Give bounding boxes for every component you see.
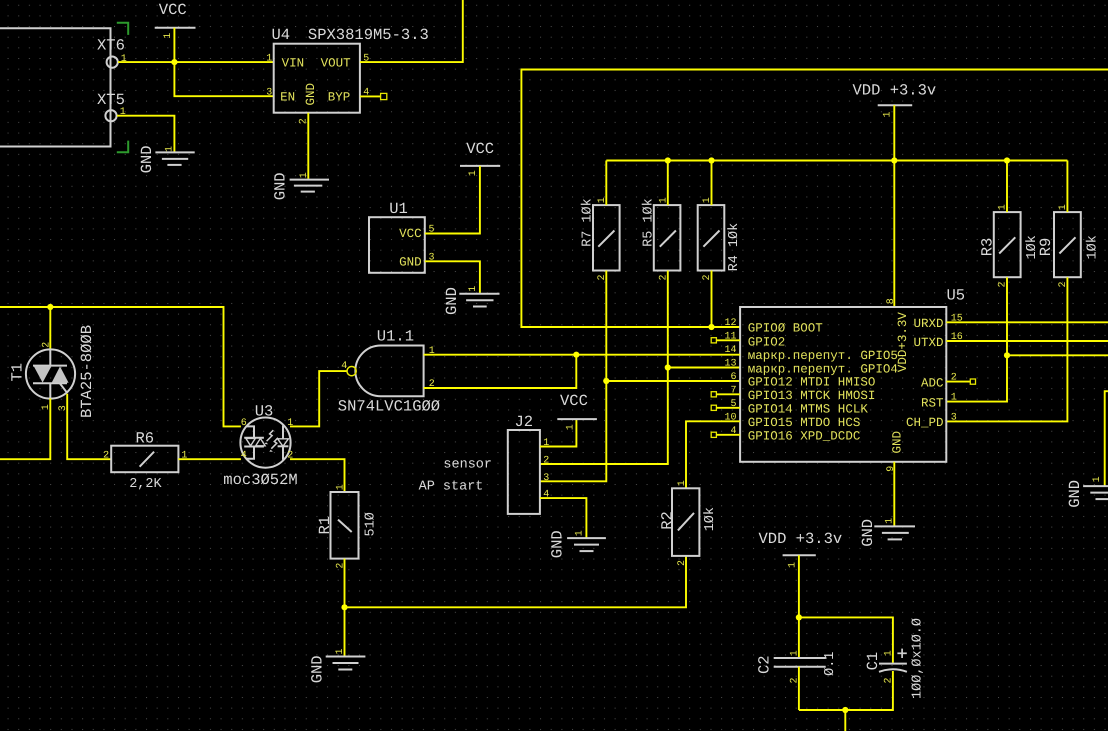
svg-text:U3: U3 <box>255 402 274 420</box>
op IC U1 <box>369 200 435 273</box>
open pin square BYP <box>381 93 387 99</box>
junction bottom <box>842 707 848 713</box>
supply VDD +3.3v (top) <box>853 81 937 117</box>
svg-text:GPIOØ BOOT: GPIOØ BOOT <box>748 322 824 336</box>
svg-text:GND: GND <box>138 145 156 173</box>
svg-text:VCC: VCC <box>560 392 588 410</box>
ground GND (U4) <box>271 172 329 200</box>
svg-text:GPIO13 MTCK HMOSI: GPIO13 MTCK HMOSI <box>748 389 876 403</box>
junction VDD/pin8 <box>891 157 897 163</box>
wire R3 top <box>1006 161 1008 213</box>
svg-text:J2: J2 <box>515 413 534 431</box>
svg-text:1: 1 <box>1092 476 1103 482</box>
svg-text:GPIO2: GPIO2 <box>748 335 786 349</box>
wire U4 BYP stub <box>360 95 381 97</box>
svg-text:EN: EN <box>280 91 295 105</box>
svg-text:1: 1 <box>885 518 896 524</box>
wire U4 GND pin 2 down <box>307 113 309 179</box>
wire VDD symbol down to U5 pin 8 <box>893 105 895 307</box>
svg-text:R4 1Øk: R4 1Øk <box>727 223 742 272</box>
svg-text:C2: C2 <box>756 655 774 674</box>
svg-text:BYP: BYP <box>328 91 351 105</box>
junction R4/GPIO0 <box>708 324 714 330</box>
svg-text:VCC: VCC <box>159 1 187 19</box>
ground GND (U5 pin 9) <box>859 518 915 547</box>
wire bottom rail <box>799 671 893 710</box>
wire U1 GND down <box>425 261 480 293</box>
pin XT5 <box>97 91 126 121</box>
svg-text:VCC: VCC <box>466 140 494 158</box>
wire right edge to GND <box>1105 391 1108 486</box>
svg-text:U1: U1 <box>389 200 408 218</box>
svg-text:1: 1 <box>575 530 586 536</box>
wire bottom to edge <box>844 710 846 731</box>
wire GPIO4 to U5 pin 13 <box>668 367 740 369</box>
junction GPIO12 <box>603 378 609 384</box>
connector frame XT (cropped) <box>0 28 111 146</box>
svg-text:GND: GND <box>304 83 318 106</box>
svg-text:6: 6 <box>241 418 247 429</box>
wire VDD rail <box>606 160 1067 162</box>
svg-text:1: 1 <box>299 172 310 178</box>
resistor R6 <box>103 429 187 492</box>
resistor R7 <box>581 197 620 280</box>
wire U5 pin 9 GND <box>893 462 895 526</box>
svg-text:1: 1 <box>677 480 688 486</box>
svg-text:1: 1 <box>790 650 801 656</box>
svg-text:8: 8 <box>886 298 897 304</box>
svg-text:GND: GND <box>549 530 567 558</box>
wire R9 bottom to CH_PD <box>946 277 1067 421</box>
svg-text:2: 2 <box>103 450 109 461</box>
ground GND (J2) <box>549 530 606 558</box>
wire R6 to U3 pin 4 <box>178 458 241 460</box>
svg-text:VDD+3.3V: VDD+3.3V <box>896 312 910 373</box>
connector J2 <box>508 413 549 514</box>
open pin square GPIO14 pin 5 <box>711 405 716 410</box>
wire gate pin2 tie <box>424 355 577 388</box>
svg-text:VCC: VCC <box>399 227 422 241</box>
transistor T1 triac <box>9 325 97 418</box>
supply VCC (J2) <box>557 392 597 430</box>
svg-text:R6: R6 <box>136 429 155 447</box>
junction T1 top <box>47 304 53 310</box>
svg-text:SPX3819M5-3.3: SPX3819M5-3.3 <box>308 26 429 44</box>
capacitor C2 <box>756 650 839 683</box>
wire C2 bottom <box>798 667 800 710</box>
svg-text:GPIO16 XPD_DCDC: GPIO16 XPD_DCDC <box>748 430 861 444</box>
gate U1.1 SN74LVC1G00 <box>338 327 440 415</box>
ground GND (U1) <box>443 286 500 315</box>
wire J2 pin1 to VCC <box>540 419 577 446</box>
junction VCC/XT6 <box>171 59 177 65</box>
wire R3 bottom to RST <box>946 277 1007 401</box>
open pin square ADC <box>970 379 975 384</box>
wire URXD pin 15 <box>946 321 1108 323</box>
svg-text:1: 1 <box>335 648 346 654</box>
svg-text:1Øk: 1Øk <box>703 507 718 531</box>
svg-text:URXD: URXD <box>913 317 943 331</box>
wire pin 7 stub <box>716 393 740 395</box>
wire R7 top <box>605 161 607 206</box>
ground GND (right edge) <box>1066 476 1108 507</box>
svg-text:VOUT: VOUT <box>321 57 352 71</box>
svg-text:1: 1 <box>951 393 957 404</box>
op U3 optotriac moc3052M <box>223 402 297 489</box>
svg-text:1: 1 <box>884 650 895 656</box>
svg-text:VDD +3.3v: VDD +3.3v <box>853 81 937 99</box>
svg-text:GPIO12 MTDI HMISO: GPIO12 MTDI HMISO <box>748 376 876 390</box>
svg-text:1Øk: 1Øk <box>1086 235 1101 259</box>
svg-text:moc3Ø52M: moc3Ø52M <box>223 471 297 489</box>
svg-text:GPIO15 MTDO HCS: GPIO15 MTDO HCS <box>748 416 861 430</box>
wire to C1 top <box>799 617 893 662</box>
wire pin 5 stub <box>716 407 740 409</box>
svg-text:3: 3 <box>951 412 957 423</box>
svg-text:4: 4 <box>341 361 347 372</box>
wire T1 gate pin 3 to R6 <box>67 394 111 459</box>
svg-text:C1: C1 <box>864 652 882 671</box>
wire R9 top corner <box>1066 161 1068 213</box>
svg-text:R3: R3 <box>979 238 997 257</box>
svg-text:AP start: AP start <box>419 479 484 494</box>
svg-text:Ø.1: Ø.1 <box>823 652 838 676</box>
svg-text:2,2K: 2,2K <box>129 477 162 492</box>
svg-text:RST: RST <box>921 396 944 410</box>
svg-text:2: 2 <box>677 560 688 566</box>
wire gate out pin1 / pin14 net <box>424 354 740 356</box>
svg-text:GND: GND <box>399 256 422 270</box>
resistor R4 <box>698 197 742 280</box>
supply VCC (U1) <box>460 140 500 176</box>
svg-text:GND: GND <box>309 655 327 683</box>
svg-text:1: 1 <box>468 170 479 176</box>
wire XT5 to GND <box>117 116 174 152</box>
svg-text:4: 4 <box>241 451 247 462</box>
green corner bracket bottom <box>117 141 128 153</box>
svg-text:U1.1: U1.1 <box>377 327 414 345</box>
svg-text:1: 1 <box>883 111 894 117</box>
svg-text:13: 13 <box>724 359 736 370</box>
svg-text:VIN: VIN <box>282 57 305 71</box>
wire GPIO0 loop top right <box>521 70 1108 328</box>
junction R4/VDD <box>708 157 714 163</box>
wire XT6 to U4 VIN <box>118 61 274 63</box>
svg-text:2: 2 <box>42 342 53 348</box>
ground GND (R1) <box>309 648 366 683</box>
open pin square GPIO16 pin 4 <box>711 432 716 437</box>
svg-text:3: 3 <box>266 88 272 99</box>
junction R1/R2 net <box>341 604 347 610</box>
junction R3/RST net <box>1004 352 1010 358</box>
junction VDD/C1/C2 <box>796 614 802 620</box>
wire R4 bottom <box>711 271 713 328</box>
resistor R1 <box>316 484 379 568</box>
green corner bracket top <box>117 23 128 35</box>
wire R5 bottom to J2 pin2 <box>540 271 668 465</box>
wire R1 bottom to GND <box>344 559 346 657</box>
op IC U5 ESP module <box>724 286 965 472</box>
svg-text:12: 12 <box>724 318 736 329</box>
svg-text:GND: GND <box>859 519 877 547</box>
open pin square GPIO2 pin 11 <box>711 338 716 343</box>
svg-text:1: 1 <box>266 53 272 64</box>
svg-text:51Ø: 51Ø <box>364 512 379 536</box>
svg-text:BTA25-8ØØB: BTA25-8ØØB <box>78 325 96 418</box>
wire RST net right offscreen <box>1007 354 1108 356</box>
wire VCC junction down to EN <box>174 62 273 96</box>
supply VDD +3.3v (bottom) <box>759 530 843 568</box>
resistor R2 <box>659 480 719 566</box>
svg-text:U4: U4 <box>272 26 291 44</box>
pin XT6 <box>97 36 127 67</box>
svg-text:VDD +3.3v: VDD +3.3v <box>759 530 843 548</box>
svg-text:1: 1 <box>335 484 346 490</box>
svg-text:R2: R2 <box>659 511 677 530</box>
resistor R3 <box>979 204 1041 287</box>
op IC U4 SPX3819 regulator <box>266 26 429 124</box>
svg-text:маркр.перепут. GPIO4: маркр.перепут. GPIO4 <box>748 362 898 376</box>
junction R5/VDD <box>665 157 671 163</box>
svg-text:3: 3 <box>543 473 549 484</box>
svg-text:GND: GND <box>1066 480 1084 508</box>
svg-text:R9: R9 <box>1037 238 1055 257</box>
svg-text:1: 1 <box>164 146 175 152</box>
svg-text:1ØØ,Øx1Ø.Ø: 1ØØ,Øx1Ø.Ø <box>911 618 926 699</box>
supply VCC (top left) <box>155 1 196 62</box>
svg-text:U5: U5 <box>947 286 966 304</box>
wire U3 pin 2 to R1 <box>290 459 345 492</box>
wire U1 VCC to supply <box>425 166 480 234</box>
svg-text:R7 1Øk: R7 1Øk <box>581 198 596 247</box>
junction GPIO4 <box>665 364 671 370</box>
svg-text:ADC: ADC <box>921 376 944 390</box>
wire U3 pin 1 up to gate U1.1 <box>290 371 347 426</box>
svg-text:1: 1 <box>121 54 127 65</box>
wire U4 VOUT up offscreen <box>360 0 463 62</box>
wire J2 pin4 to GND <box>540 498 587 538</box>
svg-text:GND: GND <box>443 287 461 315</box>
resistor R5 <box>641 197 680 280</box>
svg-text:sensor: sensor <box>443 458 492 473</box>
wire VDD bottom to C2 <box>798 555 800 658</box>
svg-text:UTXD: UTXD <box>913 336 943 350</box>
svg-text:R5 1Øk: R5 1Øk <box>641 198 656 247</box>
svg-text:1: 1 <box>788 562 799 568</box>
junction R3/VDD <box>1004 157 1010 163</box>
svg-text:XT6: XT6 <box>97 36 125 54</box>
wire T1 pin 1 to left edge <box>0 398 50 459</box>
svg-text:1: 1 <box>163 33 174 39</box>
svg-text:T1: T1 <box>9 363 27 382</box>
svg-text:6: 6 <box>730 372 736 383</box>
wire R7 bottom to J2 pin3 <box>540 271 606 482</box>
capacitor C1 polarized <box>864 618 926 699</box>
wire R1 to R2 bottom <box>345 556 687 607</box>
wire R5 top <box>667 161 669 206</box>
wire left edge to U3 pin 6 <box>0 307 241 426</box>
resistor R9 <box>1037 204 1101 287</box>
svg-text:1: 1 <box>565 424 576 430</box>
wire pin 4 stub <box>716 434 740 436</box>
svg-text:GND: GND <box>891 431 905 454</box>
svg-text:SN74LVC1GØØ: SN74LVC1GØØ <box>338 398 440 416</box>
wire UTXD pin 16 <box>946 340 1108 342</box>
svg-text:CH_PD: CH_PD <box>906 416 944 430</box>
junction gate tie <box>573 352 579 358</box>
svg-text:2: 2 <box>543 456 549 467</box>
wire R4 top <box>711 161 713 206</box>
svg-text:маркр.перепут. GPIO5: маркр.перепут. GPIO5 <box>748 349 898 363</box>
wire T1 pin 2 <box>49 307 51 350</box>
svg-text:1: 1 <box>468 286 479 292</box>
svg-text:9: 9 <box>886 466 897 472</box>
wire GPIO12 to U5 pin 6 <box>606 380 740 382</box>
svg-text:R1: R1 <box>316 516 334 535</box>
wire pin 11 stub <box>716 339 740 341</box>
svg-text:GND: GND <box>271 172 289 200</box>
svg-text:GPIO14 MTMS HCLK: GPIO14 MTMS HCLK <box>748 403 869 417</box>
wire ADC pin 2 stub <box>946 381 970 383</box>
wire pin 10 GPIO15 to R2 <box>686 421 740 488</box>
open pin square GPIO13 pin 7 <box>711 392 716 397</box>
ground GND (XT5) <box>138 145 195 173</box>
